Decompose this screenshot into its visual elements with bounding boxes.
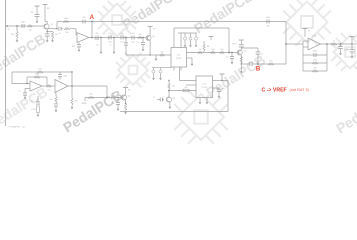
- svg-text:10n: 10n: [108, 33, 111, 35]
- svg-text:−: −: [31, 89, 32, 91]
- svg-text:+: +: [78, 34, 79, 36]
- svg-text:1u: 1u: [59, 33, 61, 35]
- svg-text:22k: 22k: [89, 94, 92, 96]
- svg-text:1u: 1u: [261, 54, 263, 56]
- svg-text:10u: 10u: [222, 88, 225, 90]
- svg-text:100p: 100p: [63, 76, 67, 78]
- svg-text:10n: 10n: [112, 103, 115, 105]
- svg-text:10k: 10k: [211, 49, 214, 51]
- svg-text:2k: 2k: [97, 45, 99, 47]
- svg-text:1M: 1M: [29, 29, 32, 31]
- svg-text:1u: 1u: [153, 97, 155, 99]
- svg-text:47k: 47k: [184, 87, 187, 89]
- svg-text:TC1044: TC1044: [202, 87, 208, 89]
- svg-text:A: A: [90, 15, 95, 21]
- svg-text:22n: 22n: [95, 33, 98, 35]
- svg-text:100n: 100n: [232, 44, 236, 46]
- svg-text:1k: 1k: [199, 49, 201, 51]
- svg-text:100n: 100n: [266, 17, 270, 19]
- svg-text:IC1B: IC1B: [312, 36, 317, 38]
- svg-text:4k7: 4k7: [72, 46, 75, 48]
- svg-text:100n: 100n: [21, 21, 25, 23]
- svg-text:10k: 10k: [47, 89, 50, 91]
- svg-text:+: +: [309, 40, 310, 42]
- svg-text:10u: 10u: [346, 49, 349, 51]
- svg-text:1u: 1u: [112, 93, 114, 95]
- svg-text:4k7: 4k7: [50, 99, 53, 101]
- svg-text:100k: 100k: [64, 18, 68, 20]
- svg-text:22n: 22n: [120, 33, 123, 35]
- svg-text:10k: 10k: [38, 68, 41, 70]
- svg-text:47u: 47u: [226, 57, 229, 59]
- svg-text:1M: 1M: [11, 34, 14, 36]
- svg-text:1n: 1n: [19, 91, 21, 93]
- svg-text:© PedalPCB ·· rev ··: © PedalPCB ·· rev ··: [8, 125, 27, 128]
- svg-text:1n: 1n: [110, 45, 112, 47]
- svg-text:VREF: VREF: [81, 103, 87, 105]
- svg-text:100k: 100k: [35, 73, 39, 75]
- svg-text:10k: 10k: [160, 51, 163, 53]
- svg-text:100k: 100k: [313, 59, 317, 61]
- svg-text:+: +: [31, 83, 32, 85]
- svg-text:1n: 1n: [137, 42, 139, 44]
- svg-text:10k: 10k: [138, 34, 141, 36]
- svg-text:−: −: [309, 48, 310, 50]
- svg-text:10n: 10n: [31, 101, 34, 103]
- svg-text:+: +: [56, 81, 57, 83]
- svg-text:LDR: LDR: [32, 109, 37, 111]
- svg-text:PT2399: PT2399: [176, 58, 182, 60]
- svg-text:10k: 10k: [172, 86, 175, 88]
- svg-text:B: B: [256, 67, 261, 73]
- svg-text:(not RAT 3): (not RAT 3): [290, 88, 310, 92]
- svg-text:10k: 10k: [75, 101, 78, 103]
- svg-text:−: −: [56, 91, 57, 93]
- svg-text:1M: 1M: [314, 67, 317, 69]
- svg-text:1M: 1M: [207, 46, 210, 48]
- svg-text:10k: 10k: [65, 32, 68, 34]
- svg-text:C -> VREF: C -> VREF: [262, 87, 287, 93]
- svg-text:10k: 10k: [269, 60, 272, 62]
- svg-text:1k: 1k: [333, 40, 335, 42]
- svg-text:15k: 15k: [220, 49, 223, 51]
